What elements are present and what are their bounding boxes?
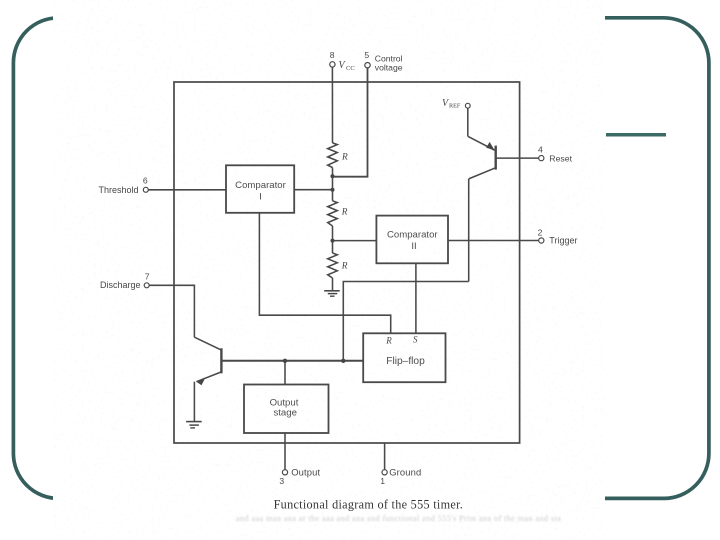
svg-text:S: S <box>413 335 418 345</box>
svg-text:Ground: Ground <box>389 466 421 477</box>
svg-text:5: 5 <box>364 50 369 60</box>
svg-text:4: 4 <box>538 144 543 154</box>
svg-text:8: 8 <box>330 50 335 60</box>
svg-text:I: I <box>259 192 262 203</box>
svg-text:1: 1 <box>380 476 385 486</box>
svg-text:voltage: voltage <box>375 63 403 73</box>
svg-text:II: II <box>411 241 416 252</box>
svg-text:2: 2 <box>538 228 543 238</box>
svg-text:3: 3 <box>279 476 284 486</box>
svg-text:stage: stage <box>273 408 296 419</box>
svg-text:7: 7 <box>145 272 150 282</box>
svg-text:REF: REF <box>449 103 461 110</box>
svg-text:Discharge: Discharge <box>100 280 141 290</box>
svg-text:R: R <box>385 336 392 346</box>
svg-text:R: R <box>341 208 348 218</box>
svg-text:6: 6 <box>143 176 148 186</box>
svg-text:CC: CC <box>346 65 355 72</box>
svg-text:Trigger: Trigger <box>549 236 577 246</box>
svg-text:R: R <box>341 152 348 162</box>
svg-text:Flip–flop: Flip–flop <box>386 356 425 367</box>
svg-text:R: R <box>341 261 348 271</box>
svg-text:Reset: Reset <box>549 153 572 163</box>
svg-text:Output: Output <box>291 466 320 477</box>
svg-text:Comparator: Comparator <box>235 180 286 191</box>
svg-text:Comparator: Comparator <box>387 229 438 240</box>
svg-text:Functional diagram of the 555: Functional diagram of the 555 timer. <box>274 498 464 512</box>
svg-text:Threshold: Threshold <box>98 185 138 195</box>
svg-text:and aaa man ana ar the aaa and: and aaa man ana ar the aaa and ana and f… <box>236 514 561 523</box>
